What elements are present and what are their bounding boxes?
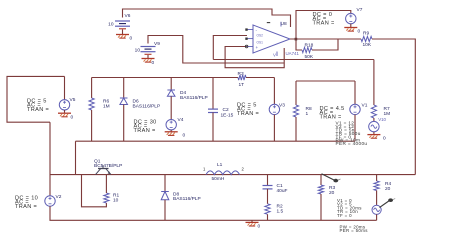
ground below V6: [116, 35, 129, 39]
svg-text:1T: 1T: [239, 82, 245, 88]
svg-text:0: 0: [71, 115, 74, 121]
svg-text:BAS116/PLP: BAS116/PLP: [173, 196, 201, 202]
svg-text:0: 0: [258, 224, 261, 230]
svg-text:V6: V6: [125, 13, 131, 19]
svg-text:+: +: [256, 45, 259, 50]
svg-text:U8: U8: [281, 21, 287, 27]
source V10: [369, 121, 379, 131]
svg-text:10K: 10K: [363, 42, 372, 48]
wire V5 plus: [64, 76, 66, 99]
wire R18 left: [296, 39, 302, 50]
svg-text:10: 10: [113, 198, 119, 204]
wire V1 bottom lead: [354, 115, 356, 142]
wire V11 bottom lead: [376, 214, 378, 220]
source V5: [59, 100, 69, 110]
wire V5 loop: [7, 76, 65, 122]
ground below V7: [344, 28, 357, 32]
wire C1 top lead: [267, 175, 269, 186]
wire R9 to right edge down: [372, 39, 415, 175]
wire D6 top lead: [123, 78, 125, 99]
source V4: [166, 120, 176, 130]
svg-text:0: 0: [183, 133, 186, 139]
svg-text:TRAN =: TRAN =: [134, 128, 156, 134]
source V3: [269, 104, 279, 114]
wire R8 bottom lead: [295, 117, 297, 141]
wire V9 minus: [147, 55, 149, 58]
wire R6 top lead: [91, 78, 93, 99]
wire V4 minus: [170, 130, 172, 132]
svg-text:1.5: 1.5: [277, 209, 284, 215]
svg-text:V9: V9: [154, 41, 160, 47]
wire R2 bottom lead: [267, 214, 269, 220]
svg-text:20: 20: [329, 190, 335, 196]
inductor L1: [206, 171, 240, 175]
op-amp U8: [245, 22, 290, 58]
wire box A top right part: [246, 77, 274, 79]
wire left drop to V2: [49, 122, 51, 196]
svg-text:BC547B/PLP: BC547B/PLP: [94, 163, 122, 169]
wire R3 top lead: [320, 175, 322, 185]
svg-text:1: 1: [306, 111, 309, 117]
ground bottom edge: [246, 222, 259, 226]
resistor R6: [89, 98, 94, 110]
wire R1 loop: [82, 175, 107, 207]
svg-text:PER = 50ms: PER = 50ms: [340, 228, 369, 233]
wire D8 bottom lead: [164, 200, 166, 221]
diode D6: [120, 98, 128, 105]
svg-text:UA741: UA741: [286, 51, 300, 56]
marker probe on bottom rail: [322, 174, 341, 183]
wire bottom edge: [50, 206, 377, 220]
ground below V4: [165, 132, 178, 136]
resistor R3 (1T): [238, 75, 246, 80]
source V7: [346, 13, 356, 23]
resistor R9: [361, 36, 372, 41]
svg-text:50K: 50K: [305, 54, 314, 60]
diode D8: [161, 192, 169, 200]
wire V1 top lead: [354, 81, 356, 104]
wire rail A (feedback rail): [213, 59, 374, 61]
battery V6: [115, 21, 130, 29]
wire bottom ground stub: [251, 220, 253, 222]
svg-text:0: 0: [358, 29, 361, 35]
wire V6 minus: [122, 30, 124, 35]
wire C1 to R2: [267, 189, 269, 204]
svg-text:C2: C2: [223, 107, 229, 113]
pin 7 tick: [267, 22, 270, 24]
marker probe at V11: [380, 198, 396, 207]
svg-text:OS1: OS1: [257, 41, 264, 45]
resistor R2: [265, 204, 270, 215]
resistor R8: [293, 105, 298, 117]
svg-text:R3: R3: [238, 71, 244, 77]
junction dot at op-amp output: [295, 38, 298, 41]
wire box A bottom edge: [76, 140, 356, 142]
svg-text:20: 20: [385, 186, 391, 192]
svg-text:10: 10: [135, 48, 141, 54]
ground below V5: [58, 113, 71, 117]
svg-text:TF = 0: TF = 0: [337, 213, 352, 218]
svg-text:R18: R18: [305, 43, 314, 49]
wire V9 to op-amp rail B: [148, 36, 284, 64]
transistor Q1: [96, 165, 111, 174]
wire D4 top lead: [170, 78, 172, 91]
capacitor C1: [263, 186, 273, 189]
resistor R4: [374, 181, 379, 191]
source V1: [350, 104, 360, 114]
wire V6 top rail to op-amp V+: [123, 9, 291, 27]
svg-text:PER = 4000u: PER = 4000u: [336, 141, 368, 146]
svg-text:V3: V3: [279, 103, 285, 109]
svg-text:TRAN =: TRAN =: [237, 111, 259, 117]
wire non-inverting input loop: [225, 47, 284, 68]
svg-text:TRAN =: TRAN =: [313, 20, 335, 26]
resistor R18: [302, 47, 312, 52]
svg-text:OS2: OS2: [257, 34, 264, 38]
wire R4 to V11: [376, 191, 378, 206]
svg-text:0: 0: [383, 136, 386, 142]
source V2: [45, 196, 55, 206]
wire D8 top lead: [164, 175, 166, 192]
wire output to R9: [296, 38, 361, 40]
capacitor C2: [208, 109, 218, 112]
wire D6 bottom lead: [123, 105, 125, 142]
resistor R1: [104, 193, 109, 203]
wire V10 minus: [373, 132, 375, 135]
svg-text:V1: V1: [362, 103, 368, 109]
wire R8 top lead: [295, 81, 297, 105]
svg-text:V7: V7: [357, 7, 363, 13]
wire R6 bottom lead: [91, 110, 93, 141]
svg-text:40uF: 40uF: [277, 188, 288, 194]
battery V9: [141, 47, 156, 55]
wire right box top: [296, 80, 355, 82]
svg-text:0: 0: [152, 60, 155, 66]
wire R7 top lead: [373, 60, 375, 106]
wire bottom rail: [50, 174, 415, 176]
svg-text:TRAN =: TRAN =: [15, 204, 37, 210]
wire C2 top lead: [212, 78, 214, 110]
svg-text:TRAN =: TRAN =: [320, 114, 342, 120]
wire C2 bottom lead: [212, 113, 214, 142]
svg-text:L1: L1: [217, 162, 223, 168]
svg-text:BAS116/PLP: BAS116/PLP: [133, 104, 161, 110]
wire V5 minus: [64, 110, 66, 113]
resistor R7: [371, 105, 376, 118]
svg-text:0: 0: [130, 36, 133, 42]
wire R1 top lead: [105, 175, 107, 193]
ground below V9: [142, 59, 155, 63]
svg-text:V10: V10: [378, 117, 386, 122]
resistor R3 (20): [318, 185, 323, 194]
wire R4 top lead: [376, 175, 378, 181]
wire D4 to V4: [170, 96, 172, 119]
wire op-amp output up to V7: [290, 11, 351, 40]
svg-text:50mH: 50mH: [212, 176, 225, 182]
diode D4: [167, 90, 175, 96]
svg-text:1M: 1M: [103, 104, 110, 110]
wire box A to bottom rail: [75, 141, 77, 174]
svg-text:BAS116/PLP: BAS116/PLP: [180, 95, 208, 101]
svg-text:TRAN =: TRAN =: [27, 107, 49, 113]
wire R18 right: [312, 39, 338, 50]
source V11: [372, 205, 381, 214]
ground below V10: [367, 135, 380, 139]
wire V3 bottom lead: [273, 115, 275, 142]
wire R7 to V10: [373, 118, 375, 122]
svg-text:R9: R9: [363, 31, 369, 37]
svg-text:V: V: [273, 53, 276, 58]
wire inverting input to rail A: [213, 36, 247, 60]
wire V3 top lead: [273, 78, 275, 105]
svg-text:1E-15: 1E-15: [221, 113, 234, 119]
svg-text:V5: V5: [70, 97, 76, 103]
wire V7 minus: [350, 24, 352, 27]
wire R3 bottom lead: [320, 194, 322, 220]
wire box A top left part: [92, 77, 238, 79]
svg-text:V2: V2: [56, 194, 62, 200]
svg-text:10: 10: [108, 22, 114, 28]
svg-text:V4: V4: [178, 117, 184, 123]
